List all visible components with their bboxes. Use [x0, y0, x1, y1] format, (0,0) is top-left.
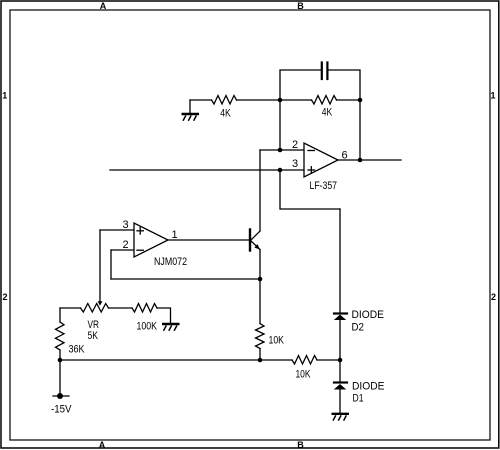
resistor R3 100K — [132, 304, 157, 313]
wire pin3 node down and right to diode branch — [280, 170, 340, 209]
wire R2 to node B — [337, 99, 361, 101]
svg-text:A: A — [100, 1, 107, 11]
svg-text:1: 1 — [490, 91, 495, 101]
wire U1 pin3 long input line — [110, 169, 304, 171]
transistor Q1 emitter diagonal — [251, 241, 260, 250]
wire node E to R6 — [260, 359, 292, 361]
svg-text:A: A — [99, 440, 106, 450]
node pin3 junction — [278, 168, 283, 173]
node output junction — [358, 158, 363, 163]
svg-text:1: 1 — [171, 229, 177, 241]
ground G2 — [162, 324, 180, 331]
svg-text:2: 2 — [491, 292, 496, 302]
svg-text:10K: 10K — [296, 369, 312, 381]
wire D1 to ground — [339, 390, 341, 414]
wire VR left lead — [60, 307, 81, 309]
wire node F long bottom rail — [60, 359, 260, 361]
svg-text:LF-357: LF-357 — [310, 180, 338, 192]
svg-text:36K: 36K — [69, 344, 86, 356]
wire capacitor left lead — [280, 70, 321, 100]
diode D1 — [334, 381, 347, 383]
svg-text:DIODE: DIODE — [352, 381, 385, 393]
node pin2 junction — [278, 148, 283, 153]
wire node D to D1 — [339, 360, 341, 383]
svg-text:B: B — [297, 440, 304, 450]
wire U2 pin3 input — [100, 229, 134, 231]
node F junction — [58, 358, 63, 363]
resistor R5 10K vertical — [256, 324, 265, 349]
wire diode branch down to D2 — [339, 209, 341, 313]
svg-text:NJM072: NJM072 — [154, 256, 187, 268]
ground G3 — [332, 414, 350, 421]
transistor Q1 collector vertical — [259, 150, 261, 231]
capacitor C1 plates — [321, 63, 323, 80]
wire node B down to output node — [359, 100, 361, 160]
svg-text:2: 2 — [292, 139, 298, 151]
svg-text:6: 6 — [341, 150, 347, 162]
transistor Q1 emitter arrow — [254, 244, 260, 249]
wire node A down to pin2 node — [279, 100, 281, 150]
wire R3 to ground stub — [157, 308, 171, 324]
wire R5 to node E — [259, 349, 261, 361]
wire U2 pin2 input — [111, 249, 134, 251]
ground G1 stub — [189, 100, 191, 113]
wire VR to R3 — [109, 307, 133, 309]
wire capacitor right lead — [328, 70, 360, 100]
resistor R6 10K — [292, 356, 317, 365]
svg-text:3: 3 — [122, 219, 128, 231]
node D junction — [338, 358, 343, 363]
wire feedback to node C — [111, 278, 260, 280]
wire D2 to node D — [339, 320, 341, 360]
svg-text:2: 2 — [122, 239, 128, 251]
terminal -15V tick — [53, 395, 69, 397]
node B junction — [358, 98, 363, 103]
wire U2 pin3 down to VR wiper — [99, 230, 101, 302]
wire emitter down to node C — [259, 250, 261, 280]
diode D2 — [334, 312, 347, 314]
wire ground stub to R1 — [190, 99, 212, 101]
node C junction — [258, 277, 263, 282]
op-amp U1 LF-357 — [304, 143, 338, 177]
transistor Q1 base bar — [249, 230, 251, 251]
svg-text:D2: D2 — [352, 322, 365, 334]
svg-text:2: 2 — [2, 292, 7, 302]
svg-text:100K: 100K — [137, 321, 158, 333]
op-amp U2 NJM072 — [134, 223, 168, 257]
svg-text:5K: 5K — [88, 330, 99, 342]
resistor R4 36K — [56, 322, 65, 350]
svg-text:3: 3 — [292, 158, 298, 170]
svg-text:4K: 4K — [220, 108, 231, 120]
wire R4 to node F — [59, 350, 61, 360]
node A junction — [278, 98, 283, 103]
wire R1 to node A — [237, 99, 281, 101]
svg-text:D1: D1 — [353, 393, 364, 405]
wire node F to -15V terminal — [59, 360, 61, 396]
svg-text:B: B — [297, 1, 304, 11]
resistor R2 4K — [312, 96, 337, 105]
svg-text:4K: 4K — [322, 107, 333, 119]
wire R6 to node D — [317, 359, 340, 361]
svg-text:10K: 10K — [269, 335, 285, 347]
svg-text:1: 1 — [2, 91, 7, 101]
svg-text:DIODE: DIODE — [352, 309, 385, 321]
node E junction — [258, 358, 263, 363]
terminal -15V dot — [57, 393, 63, 399]
transistor Q1 collector diagonal — [251, 231, 260, 240]
ground G1 — [182, 114, 200, 121]
resistor R1 4K — [212, 96, 237, 105]
wire U1 output pin6 — [338, 159, 401, 161]
wire node C to R5 — [259, 279, 261, 324]
wire U2 pin2 feedback down — [110, 250, 112, 279]
svg-text:-15V: -15V — [51, 404, 72, 416]
VR wiper arrow — [98, 301, 103, 306]
transistor Q1 base wire from U2 pin1 — [168, 239, 249, 241]
wire node A to R2 — [280, 99, 312, 101]
wire VR corner down to R4 — [59, 308, 61, 322]
potentiometer VR 5K — [81, 304, 109, 313]
wire U1 pin2 input — [260, 149, 304, 151]
